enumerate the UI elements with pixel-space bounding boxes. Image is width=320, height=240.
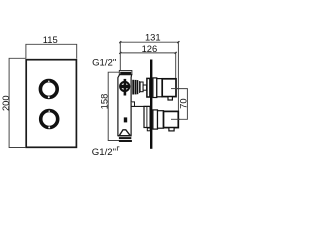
bottom block behind plate xyxy=(144,106,150,127)
circle slot vertical xyxy=(124,79,127,96)
bottom knob section B xyxy=(158,111,164,129)
svg-text:G1/2": G1/2" xyxy=(92,57,116,68)
svg-text:126: 126 xyxy=(142,43,158,54)
bottom knob ring xyxy=(41,110,58,128)
top knob tab xyxy=(168,97,172,100)
circle cross band xyxy=(120,85,130,88)
svg-text:115: 115 xyxy=(43,34,58,45)
body link line xyxy=(131,105,150,107)
top knob ring xyxy=(40,80,57,98)
top knob body xyxy=(162,79,176,97)
dim 115 xyxy=(26,44,77,58)
top inlet flange xyxy=(119,71,132,75)
svg-text:158: 158 xyxy=(99,94,110,110)
horn step bar xyxy=(139,81,140,93)
outlet thread band 1 xyxy=(119,137,131,139)
top inlet thread band xyxy=(120,72,131,74)
top knob section B xyxy=(157,79,162,97)
dim 70 xyxy=(171,89,187,120)
svg-text:200: 200 xyxy=(0,95,11,111)
dim 200 xyxy=(9,58,26,147)
control circle xyxy=(120,82,129,91)
dim 126 xyxy=(119,52,176,54)
bottom block inner line xyxy=(146,107,148,128)
bottom knob section A xyxy=(153,110,158,129)
spindle sleeve xyxy=(140,82,143,92)
top block behind plate xyxy=(147,78,150,97)
outlet thread band 2 xyxy=(119,140,132,142)
dim 131 xyxy=(119,41,179,43)
front plate xyxy=(26,60,76,148)
spindle shaft xyxy=(143,85,147,90)
bottom chevron xyxy=(119,130,130,136)
horn ribs xyxy=(132,80,138,95)
extension line 131 right xyxy=(177,41,179,111)
body step right xyxy=(131,102,134,107)
bottom knob tab xyxy=(169,128,174,131)
top knob section A xyxy=(153,78,157,98)
bottom label leader xyxy=(117,147,119,151)
dim 158 xyxy=(108,72,124,140)
bottom knob centerline overlay xyxy=(171,118,180,120)
valve body column xyxy=(118,75,132,136)
bottom knob body xyxy=(164,111,179,127)
svg-text:G1/2": G1/2" xyxy=(92,147,116,158)
body screw mark xyxy=(124,117,127,122)
top knob centerline overlay xyxy=(171,88,180,90)
bottom notch xyxy=(147,128,150,131)
wall plate side bar xyxy=(150,60,152,149)
extension line shared left (131/126) xyxy=(119,41,121,70)
svg-text:131: 131 xyxy=(145,32,161,43)
svg-text:70: 70 xyxy=(178,98,189,108)
extension line 126 right xyxy=(175,52,177,78)
outlet base line xyxy=(118,135,131,137)
